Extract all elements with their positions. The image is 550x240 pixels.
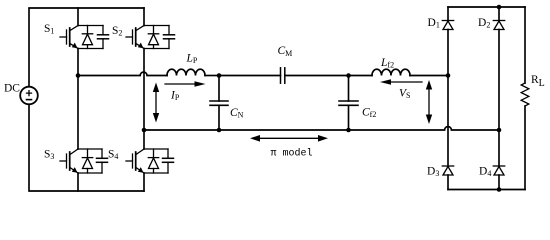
Cf2 bottom lead bbox=[348, 105, 350, 130]
S1 IGBT gate lead bbox=[60, 36, 67, 38]
S3 top bus bbox=[78, 148, 102, 150]
svg-text:CM: CM bbox=[278, 45, 293, 58]
svg-text:Cf2: Cf2 bbox=[362, 107, 376, 120]
svg-text:VS: VS bbox=[399, 88, 410, 101]
inductor Lf2 bbox=[372, 69, 410, 75]
wire: rectifier bottom rail bbox=[448, 189, 525, 191]
wire: LP to node C bbox=[205, 75, 219, 77]
S3 IGBT collector lead bbox=[70, 149, 78, 155]
S3 IGBT gate lead bbox=[60, 160, 67, 162]
S4 snubber capacitor bbox=[167, 149, 169, 158]
wire: tank bottom from node B with hop over rectifier left branch bbox=[144, 127, 499, 130]
S4 IGBT body bar bbox=[135, 152, 137, 170]
S1 snubber capacitor bbox=[102, 26, 104, 35]
S1 IGBT body bar bbox=[69, 28, 71, 46]
svg-text:π model: π model bbox=[271, 147, 313, 159]
S2 IGBT emitter lead with arrow bbox=[136, 44, 144, 49]
wire: right leg lower (S4 to bottom rail) bbox=[143, 173, 145, 191]
wire: rectifier top rail bbox=[448, 6, 525, 8]
wire: Lf2 to rectifier node E bbox=[410, 75, 448, 77]
svg-text:CN: CN bbox=[230, 107, 244, 120]
S2 IGBT gate bar bbox=[132, 30, 134, 44]
S1 IGBT collector lead bbox=[70, 26, 78, 31]
wire: tank top from node A with hop over right leg bbox=[78, 72, 167, 75]
wire: left leg upper (top rail to S1) bbox=[77, 8, 79, 26]
node B (right leg midpoint) bbox=[142, 128, 147, 133]
S1 antiparallel diode bbox=[87, 26, 89, 34]
switch S2 (IGBT with antiparallel diode and snubber capacitor) bbox=[126, 26, 175, 49]
svg-text:S4: S4 bbox=[108, 149, 118, 162]
wire: node D to Lf2 bbox=[349, 75, 373, 77]
S2 IGBT gate lead bbox=[126, 36, 133, 38]
diode D4 bbox=[493, 166, 504, 175]
annotation: pi model extent double arrow bbox=[250, 135, 328, 142]
node H (top rail tap to RL) bbox=[497, 5, 502, 10]
wire: RL branch bottom bbox=[524, 106, 526, 190]
svg-text:D3: D3 bbox=[427, 166, 439, 179]
DC source V1 bbox=[20, 87, 38, 105]
node I (bottom rail tap to RL) bbox=[497, 187, 502, 192]
node J (rectifier AC input right) bbox=[497, 128, 502, 133]
wire: left leg middle (S1 to node A) bbox=[77, 49, 79, 150]
svg-text:IP: IP bbox=[170, 90, 180, 103]
S2 bottom bus bbox=[144, 48, 169, 50]
Cf2 top lead bbox=[348, 76, 350, 102]
S4 IGBT gate bar bbox=[132, 154, 134, 168]
svg-text:RL: RL bbox=[531, 74, 545, 89]
wire: right leg upper (top rail to S2) bbox=[143, 8, 145, 26]
wire: rectifier left branch bbox=[447, 7, 449, 21]
annotation: secondary port double arrow bbox=[426, 80, 432, 124]
node E (rectifier AC input left) bbox=[446, 73, 451, 78]
svg-text:LP: LP bbox=[186, 53, 198, 66]
switch S1 (IGBT with antiparallel diode and snubber capacitor) bbox=[60, 26, 109, 49]
S1 IGBT gate bar bbox=[66, 30, 68, 44]
capacitor CM (series) bbox=[281, 68, 285, 83]
S3 IGBT body bar bbox=[69, 152, 71, 170]
svg-text:S3: S3 bbox=[44, 149, 54, 162]
svg-text:D4: D4 bbox=[479, 166, 491, 179]
node F (CN bottom tap) bbox=[217, 128, 222, 133]
S1 bottom bus bbox=[78, 48, 103, 50]
diode D3 bbox=[442, 166, 453, 175]
S4 IGBT gate lead bbox=[126, 160, 133, 162]
wire: D2 to node J bbox=[498, 30, 500, 167]
annotation: current IP arrow bbox=[165, 81, 206, 86]
resistor RL bbox=[521, 83, 529, 106]
S2 IGBT body bar bbox=[135, 28, 137, 46]
annotation: primary port voltage double arrow bbox=[153, 83, 159, 123]
switch S4 (IGBT with antiparallel diode and snubber capacitor) bbox=[126, 149, 174, 173]
inductor LP bbox=[167, 69, 205, 75]
diode D2 bbox=[493, 21, 504, 30]
annotation: secondary voltage VS arrow bbox=[380, 79, 422, 84]
wire: RL branch top bbox=[524, 7, 526, 83]
S3 snubber capacitor bbox=[101, 149, 103, 158]
S2 snubber capacitor bbox=[168, 26, 170, 35]
S4 IGBT emitter lead with arrow bbox=[136, 168, 144, 174]
wire: D4 to bottom rail bbox=[498, 175, 500, 190]
switch S3 (IGBT with antiparallel diode and snubber capacitor) bbox=[60, 149, 108, 173]
node G (Cf2 bottom tap) bbox=[346, 128, 351, 133]
wire: rectifier right branch bbox=[498, 7, 500, 21]
node D (Cf2 top tap) bbox=[346, 73, 351, 78]
S4 IGBT collector lead bbox=[136, 149, 144, 155]
wire: left rail top segment bbox=[29, 8, 144, 87]
S3 antiparallel diode bbox=[87, 149, 89, 158]
node C (CN top tap) bbox=[217, 73, 222, 78]
svg-text:DC: DC bbox=[4, 83, 20, 95]
S4 top bus bbox=[144, 148, 168, 150]
svg-text:S2: S2 bbox=[112, 25, 122, 38]
wire: D3 to bottom rail bbox=[447, 175, 449, 190]
S2 antiparallel diode bbox=[153, 26, 155, 34]
S2 IGBT collector lead bbox=[136, 26, 144, 31]
capacitor Cf2 (parallel) bbox=[339, 76, 358, 131]
S2 top bus bbox=[144, 25, 169, 27]
S4 antiparallel diode bbox=[153, 149, 155, 158]
S4 bottom bus bbox=[144, 172, 168, 174]
S3 bottom bus bbox=[78, 172, 102, 174]
S3 IGBT emitter lead with arrow bbox=[70, 168, 78, 174]
CN top lead bbox=[218, 76, 220, 102]
svg-text:Lf2: Lf2 bbox=[380, 57, 394, 70]
svg-text:S1: S1 bbox=[44, 23, 54, 36]
wire: left rail bottom segment bbox=[29, 104, 144, 191]
Cf2 plates bbox=[339, 100, 358, 102]
CN bottom lead bbox=[218, 105, 220, 130]
S3 IGBT gate bar bbox=[66, 154, 68, 168]
capacitor CN (parallel tank) bbox=[210, 76, 228, 131]
S1 IGBT emitter lead with arrow bbox=[70, 44, 78, 49]
wire: CM to node D bbox=[285, 75, 349, 77]
CN plates bbox=[210, 100, 228, 102]
wire: node C to CM bbox=[219, 75, 281, 77]
node A (left leg midpoint) bbox=[76, 73, 81, 78]
wire: left leg lower (S3 to bottom rail) bbox=[77, 173, 79, 191]
wire: D1 to node E bbox=[447, 30, 449, 167]
svg-text:D1: D1 bbox=[428, 17, 440, 30]
svg-text:D2: D2 bbox=[478, 17, 490, 30]
diode D1 bbox=[442, 21, 453, 30]
wire: right leg middle (S2 to node B) bbox=[143, 49, 145, 150]
S1 top bus bbox=[78, 25, 103, 27]
